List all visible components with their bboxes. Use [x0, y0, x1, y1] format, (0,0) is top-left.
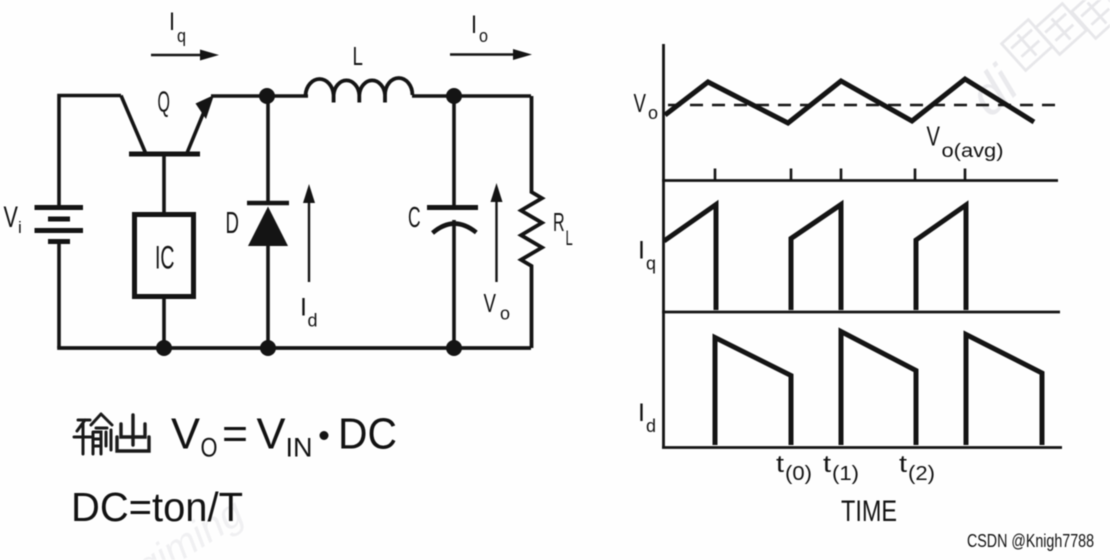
label RL [553, 207, 573, 250]
svg-text:q: q [646, 254, 656, 274]
svg-text:I: I [471, 11, 477, 39]
wire: IC to bottom rail [162, 297, 166, 348]
label t(0) [776, 451, 812, 485]
arrow Id [303, 184, 315, 282]
label t(1) [823, 451, 859, 485]
svg-text:V: V [171, 410, 201, 459]
svg-text:TIME: TIME [841, 495, 897, 528]
svg-text:I: I [300, 294, 307, 322]
svg-text:IN: IN [286, 433, 313, 463]
arrow Io [450, 49, 532, 60]
svg-text:o: o [500, 304, 510, 324]
arrow Vo [491, 183, 503, 282]
svg-text:o(avg): o(avg) [942, 141, 1004, 162]
waveform y-axis [662, 44, 665, 448]
svg-text:(1): (1) [832, 463, 859, 485]
wire: bottom rail [57, 346, 531, 350]
junction node (diode bottom) [260, 340, 276, 356]
label Vo (axis) [634, 88, 659, 123]
junction node (diode top) [259, 88, 275, 104]
svg-text:I: I [169, 8, 175, 36]
wire: battery to bottom rail [57, 242, 61, 349]
svg-text:q: q [177, 26, 186, 46]
label Vo(avg) [927, 121, 1004, 162]
label Vi [4, 199, 22, 237]
svg-text:(2): (2) [908, 463, 935, 485]
arrow Iq [151, 50, 219, 61]
svg-text:L: L [566, 226, 573, 250]
svg-text:o: o [479, 26, 488, 46]
svg-text:(0): (0) [785, 463, 812, 485]
svg-text:d: d [646, 416, 656, 436]
svg-text:DC: DC [338, 410, 397, 459]
svg-text:L: L [353, 41, 363, 71]
plot1 tick marks [715, 169, 965, 181]
svg-text:DC=ton/T: DC=ton/T [71, 484, 243, 530]
label Id [638, 399, 656, 436]
svg-text:V: V [4, 199, 19, 233]
label Id [300, 294, 318, 331]
label Io [471, 11, 488, 46]
label 输 (hand-drawn glyph) [74, 414, 112, 454]
plot3 x-axis [662, 446, 1062, 449]
junction node (capacitor top) [446, 88, 462, 104]
plot2 x-axis [662, 311, 1060, 314]
svg-text:V: V [257, 410, 287, 459]
label Iq [638, 237, 656, 274]
label Iq [169, 8, 186, 46]
svg-text:=: = [222, 410, 248, 459]
svg-text:CSDN @Knigh7788: CSDN @Knigh7788 [967, 531, 1094, 551]
diode D [247, 96, 289, 348]
svg-text:V: V [927, 121, 941, 152]
wire: collector to inductor [211, 94, 308, 98]
svg-text:O: O [201, 433, 218, 463]
svg-text:t: t [776, 451, 784, 478]
IC block U1 [135, 215, 194, 297]
junction node (capacitor bottom) [446, 340, 462, 356]
svg-text:I: I [638, 237, 645, 265]
waveform Iq [664, 205, 966, 311]
battery Vi [35, 208, 84, 242]
svg-text:o: o [648, 103, 658, 123]
svg-text:i: i [18, 218, 22, 237]
svg-text:I: I [638, 399, 645, 427]
label Vo (circuit) [484, 288, 511, 324]
transistor Q1 [121, 95, 214, 154]
wire: base to IC [162, 154, 166, 214]
waveform Vo ripple [665, 79, 1034, 123]
svg-text:D: D [226, 206, 239, 240]
waveform Id [715, 332, 1042, 446]
svg-text:t: t [899, 451, 907, 478]
capacitor C [427, 96, 478, 348]
inductor L [306, 78, 413, 103]
svg-text:Q: Q [158, 85, 170, 117]
svg-text:V: V [484, 288, 496, 318]
svg-text:R: R [553, 207, 565, 237]
dashed Vo(avg) line [668, 104, 1056, 107]
svg-text:C: C [408, 202, 421, 235]
watermark 苏映雪 (faint diagonal, top right) [958, 0, 1110, 128]
svg-text:d: d [308, 311, 318, 331]
plot1 x-axis [662, 179, 1058, 182]
svg-text:V: V [634, 88, 646, 118]
wire: top-left corner to battery [59, 96, 121, 208]
svg-text:IC: IC [155, 239, 175, 275]
resistor RL [521, 96, 542, 348]
formula Vo = VIN · DC [171, 410, 397, 463]
label t(2) [899, 451, 935, 485]
svg-text:t: t [823, 451, 831, 478]
label 出 (hand-drawn glyph) [117, 415, 149, 451]
wire: inductor to right corner [412, 94, 531, 98]
junction node (IC bottom) [156, 340, 172, 356]
